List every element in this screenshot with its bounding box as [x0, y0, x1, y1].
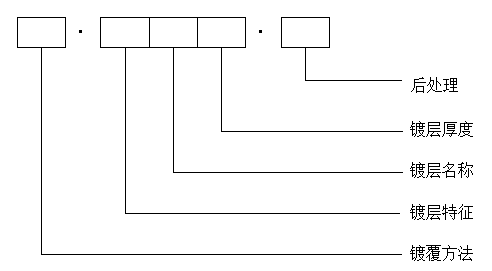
- label 后处理 (post-treatment): [411, 77, 458, 93]
- cell divider 2: [197, 18, 199, 48]
- label 镀层名称 (coating name): [410, 162, 473, 178]
- separator dot 1: [79, 30, 82, 33]
- cell divider 1: [149, 18, 151, 48]
- wire: box1 to 镀覆方法 label: [42, 48, 403, 255]
- wire: cell3 to 镀层厚度 label: [222, 48, 404, 132]
- box 1: plating method code box: [18, 18, 66, 48]
- separator dot 2: [259, 30, 262, 33]
- wire: box5 to 后处理 label: [306, 48, 403, 81]
- box 5: post-treatment code box: [282, 18, 330, 48]
- label 镀层特征 (coating characteristics): [410, 204, 473, 220]
- wire: cell2 to 镀层名称 label: [174, 48, 404, 173]
- wire: cell1 to 镀层特征 label: [126, 48, 401, 214]
- label 镀覆方法 (plating method): [410, 245, 473, 261]
- box group: three joined code boxes: [101, 18, 246, 48]
- label 镀层厚度 (coating thickness): [410, 121, 473, 137]
